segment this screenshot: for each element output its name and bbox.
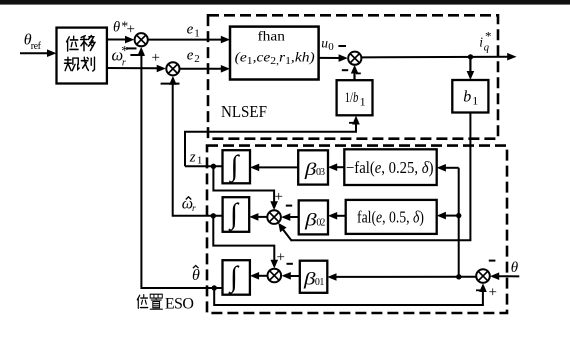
label z1 bbox=[189, 150, 203, 167]
wire e-line vertical up bbox=[458, 168, 460, 277]
wire omega row: integrator2 out, up to J2 bbox=[169, 76, 223, 216]
wire beta02 to J4 bbox=[281, 213, 299, 221]
wire z branch down to J4 bbox=[213, 166, 278, 210]
svg-text:β: β bbox=[304, 209, 317, 229]
label CJK wei char bbox=[137, 295, 147, 309]
svg-text:β: β bbox=[304, 159, 317, 179]
svg-text:e: e bbox=[187, 47, 194, 63]
summing junction J6 bbox=[476, 269, 490, 283]
label minus J4 bbox=[286, 205, 292, 207]
svg-text:ESO: ESO bbox=[165, 296, 194, 313]
wire theta_ref input bbox=[20, 49, 57, 57]
svg-text:1: 1 bbox=[472, 94, 478, 108]
node dot z row bbox=[211, 164, 216, 169]
node dot iq branch bbox=[468, 54, 473, 59]
wire omega branch down to J5 bbox=[213, 216, 278, 269]
wire b1 down and to J4 diagonal bbox=[278, 113, 470, 242]
svg-text:θ: θ bbox=[511, 260, 519, 276]
svg-text:fal(e, 0.5, δ): fal(e, 0.5, δ) bbox=[357, 208, 424, 227]
label minus J5 bbox=[287, 263, 293, 265]
svg-text:ref: ref bbox=[31, 41, 42, 52]
wire e-line into fal05 bbox=[437, 212, 459, 220]
wire dot down to b1 bbox=[467, 57, 475, 80]
summing junction J1 bbox=[135, 33, 148, 46]
block fal(e,0.5,delta) bbox=[346, 200, 437, 234]
wire 1/b1 up to J3 bbox=[351, 65, 359, 80]
label u0 bbox=[321, 35, 334, 53]
svg-text:b: b bbox=[463, 89, 471, 106]
svg-text:r: r bbox=[192, 204, 196, 214]
label CJK hua (plan) char4 bbox=[81, 57, 94, 71]
svg-text:1: 1 bbox=[194, 27, 200, 39]
summing junction J5 bbox=[268, 269, 282, 283]
block beta01 bbox=[300, 261, 328, 293]
summing junction J4 bbox=[267, 210, 281, 224]
block b1 bbox=[452, 80, 488, 113]
svg-text:z: z bbox=[189, 150, 196, 166]
wire theta-star to J1 bbox=[107, 36, 134, 44]
block integrator 3 bbox=[223, 260, 250, 295]
wire theta input to J6 bbox=[490, 272, 519, 280]
svg-text:θ: θ bbox=[113, 20, 120, 36]
node dot omega row bbox=[211, 213, 216, 218]
tick J6 arrow base bbox=[476, 289, 481, 291]
svg-text:u: u bbox=[321, 35, 328, 50]
label CJK wei (position) char1 bbox=[67, 36, 79, 51]
block fal(e,0.25,delta) bbox=[344, 149, 436, 185]
svg-text:2: 2 bbox=[194, 53, 200, 65]
svg-text:NLSEF: NLSEF bbox=[221, 102, 267, 121]
svg-text:+: + bbox=[277, 250, 285, 266]
block beta03 bbox=[298, 150, 328, 184]
svg-text:i: i bbox=[479, 35, 483, 50]
block integrator 2 bbox=[223, 197, 250, 232]
label e2 bbox=[187, 47, 200, 64]
block displacement planning (weiyi guihua) bbox=[57, 28, 107, 84]
wire theta branch down to J6 bbox=[214, 283, 487, 305]
wire e1 J1 to fhan bbox=[148, 36, 230, 44]
wire z row out of integrator1 bbox=[185, 165, 223, 167]
wire e-line into fal025 bbox=[437, 164, 459, 172]
label theta-hat bbox=[192, 266, 200, 285]
summing junction J3 bbox=[348, 52, 361, 65]
label theta_ref bbox=[24, 32, 42, 53]
svg-text:0: 0 bbox=[328, 41, 334, 53]
block 1/b1 bbox=[337, 80, 373, 115]
wire J3 to iq output bbox=[361, 53, 516, 61]
label CJK yi (move) char2 bbox=[81, 36, 95, 51]
svg-text:fhan: fhan bbox=[258, 30, 286, 45]
node dot theta row bbox=[212, 285, 217, 290]
wire fhan to J3 bbox=[319, 54, 348, 62]
svg-text:1/b: 1/b bbox=[345, 90, 359, 106]
block fhan bbox=[230, 27, 319, 80]
wire z-line into 1/b1 bottom bbox=[185, 116, 360, 167]
svg-text:+: + bbox=[275, 189, 283, 205]
label minus u0 bbox=[338, 45, 346, 47]
wire J6 to beta01 (e line) bbox=[327, 273, 476, 281]
svg-text:−fal(e, 0.25, δ): −fal(e, 0.25, δ) bbox=[346, 158, 434, 177]
svg-text:02: 02 bbox=[316, 217, 325, 228]
label CJK zhi char bbox=[150, 294, 162, 309]
ESO dashed box bbox=[207, 146, 507, 313]
label omega_r-star bbox=[112, 44, 129, 68]
svg-text:1: 1 bbox=[360, 95, 366, 109]
node dot e-line fal05 bbox=[456, 213, 461, 218]
svg-text:01: 01 bbox=[315, 277, 325, 288]
wire e2 J2 to fhan bbox=[180, 65, 231, 73]
wire omega-star to J2 bbox=[107, 65, 166, 73]
wire J5 to integrator3 bbox=[250, 272, 268, 280]
label minus J3 bottom bbox=[342, 69, 348, 71]
svg-text:r: r bbox=[122, 57, 126, 68]
label minus J6 bbox=[489, 260, 496, 262]
node dot e-line row3 bbox=[456, 274, 461, 279]
wire beta01 to J5 bbox=[282, 272, 300, 280]
wire fal05 to beta02 bbox=[328, 212, 346, 220]
summing junction J2 bbox=[166, 62, 179, 75]
crossbar J1 arrow base bbox=[130, 54, 144, 56]
svg-text:+: + bbox=[127, 22, 135, 38]
top scan bar bbox=[0, 0, 570, 5]
label theta-star bbox=[113, 19, 128, 35]
svg-text:e: e bbox=[187, 22, 194, 38]
block beta02 bbox=[299, 200, 328, 234]
svg-text:β: β bbox=[303, 269, 316, 289]
tick J3 arrow base bbox=[356, 72, 361, 74]
block integrator 1 bbox=[223, 150, 251, 183]
label minus J2 / crossbar bbox=[161, 83, 180, 85]
label iq-star bbox=[479, 29, 491, 54]
svg-text:1: 1 bbox=[197, 154, 203, 166]
wire theta row: integrator3 out, up to J1 bbox=[137, 47, 222, 288]
wire beta03 to integrator1 bbox=[250, 164, 298, 172]
label e1 bbox=[187, 22, 200, 40]
wire J4 to integrator2 bbox=[249, 213, 267, 221]
svg-text:q: q bbox=[484, 43, 489, 54]
NLSEF dashed box bbox=[208, 15, 498, 138]
wire fal025 to beta03 bbox=[328, 163, 344, 171]
svg-text:03: 03 bbox=[316, 167, 325, 178]
svg-text:θ: θ bbox=[192, 267, 200, 284]
svg-text:*: * bbox=[485, 29, 492, 44]
label minus J1 bbox=[126, 47, 136, 49]
label CJK gui (rule) char3 bbox=[64, 57, 79, 70]
svg-text:+: + bbox=[152, 50, 160, 66]
svg-text:+: + bbox=[489, 285, 497, 301]
label omega-hat r bbox=[182, 196, 196, 214]
